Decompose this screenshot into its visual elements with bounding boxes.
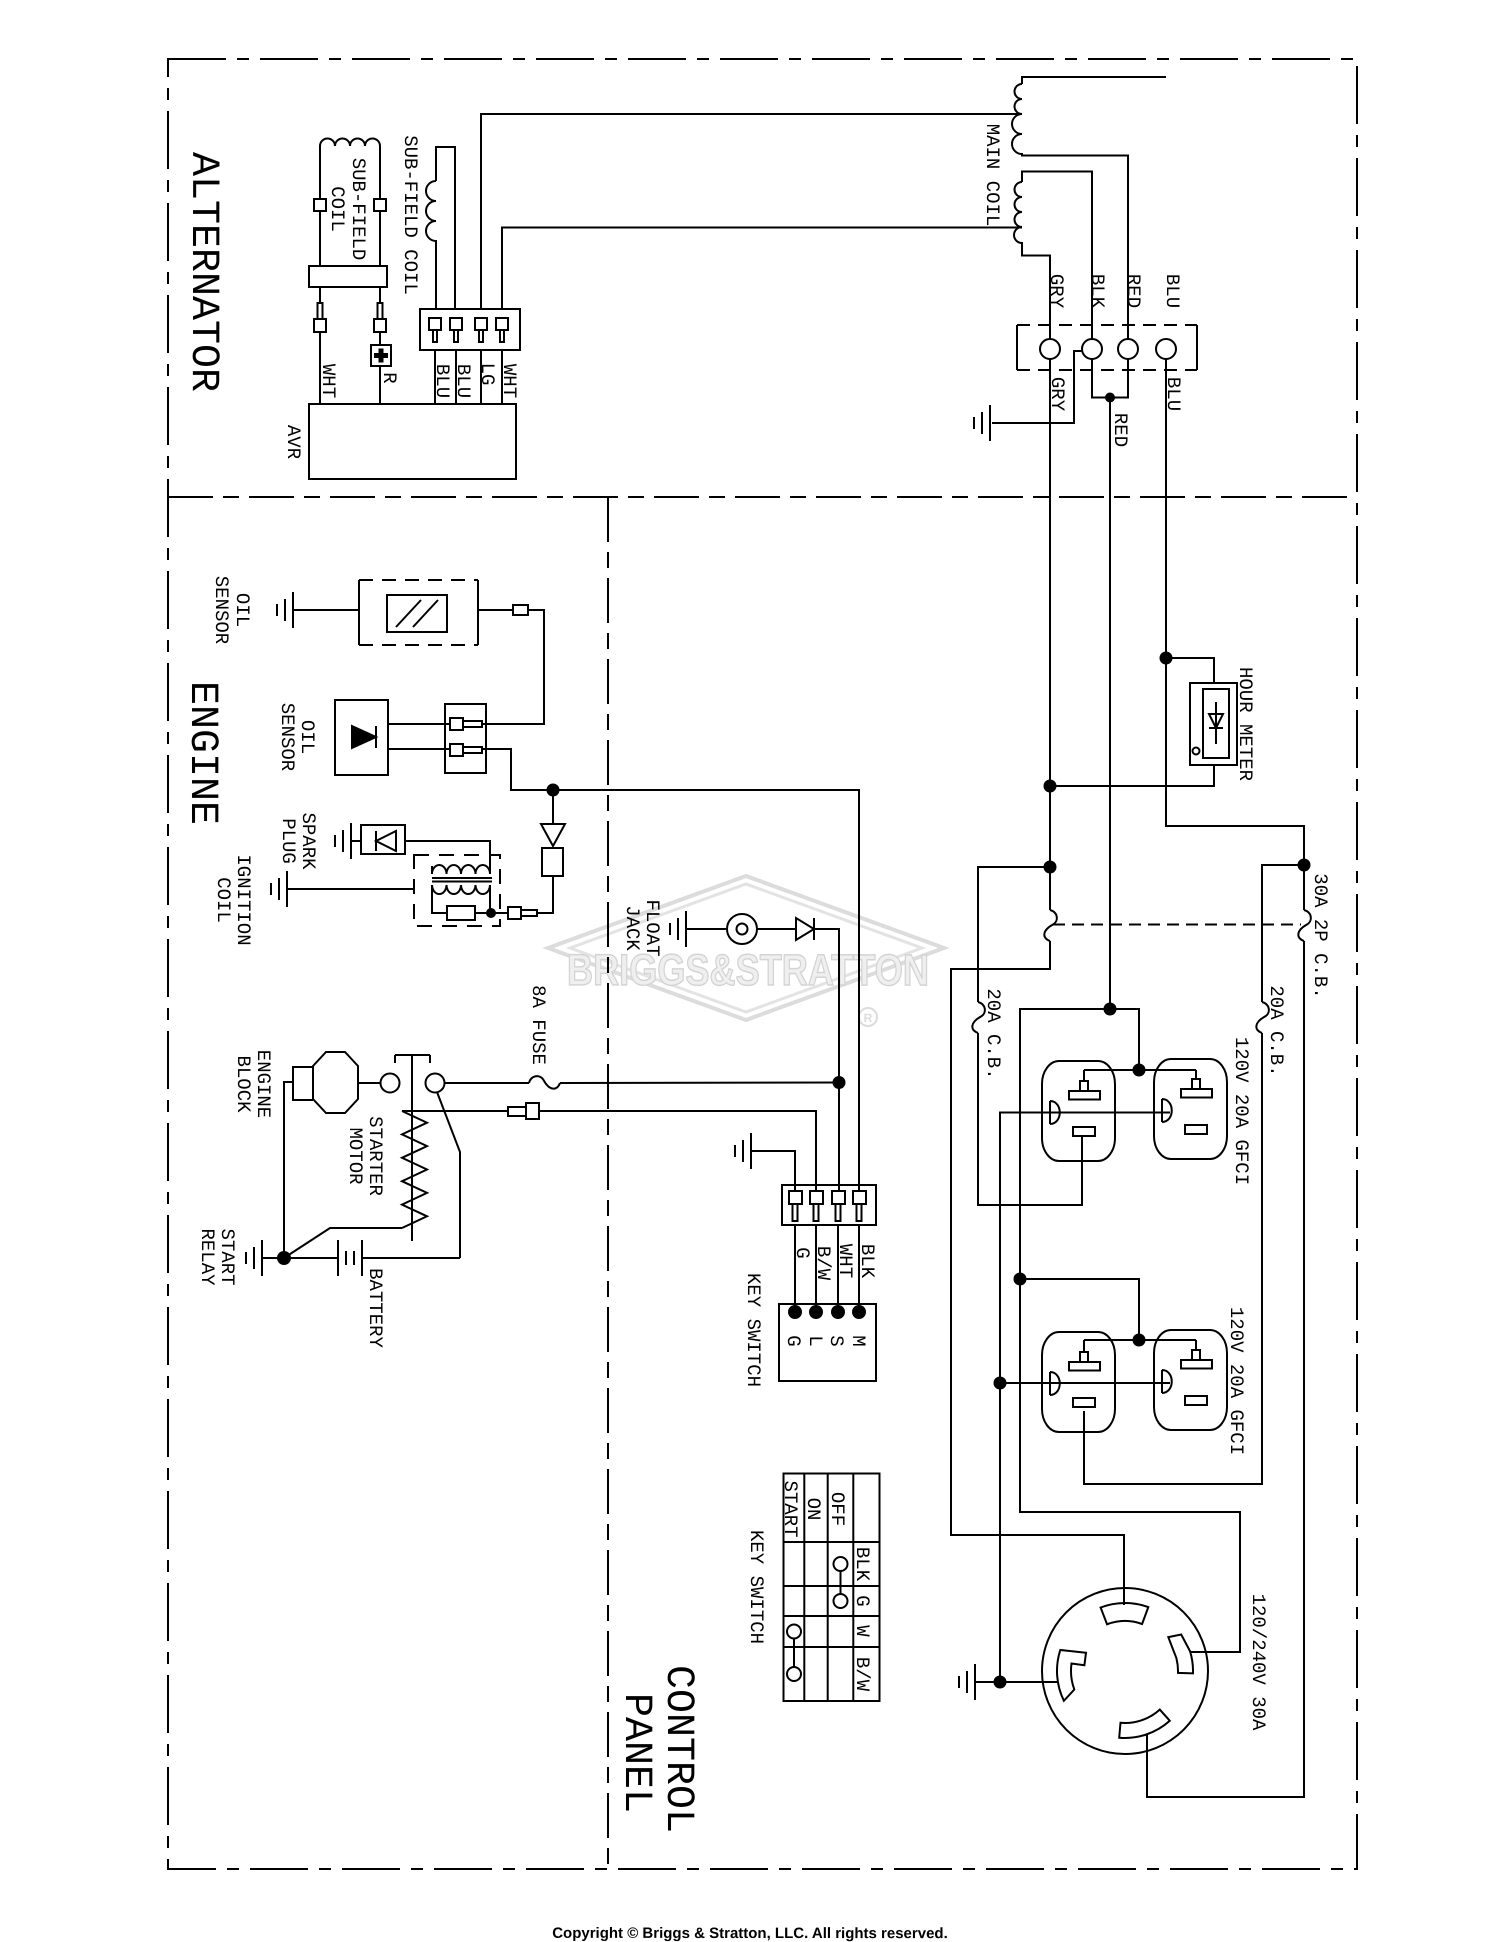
wire start relay ground — [262, 1257, 284, 1259]
wire oil sensor 1 output — [478, 609, 513, 611]
node BLK/RED junction — [1105, 393, 1115, 403]
svg-text:120/240V 30A: 120/240V 30A — [1247, 1594, 1269, 1731]
svg-text:W: W — [851, 1625, 873, 1637]
svg-text:R: R — [378, 372, 400, 383]
wire BLK to chassis ground — [992, 351, 1082, 423]
GFCI receptacle pair2 left — [1042, 1332, 1115, 1432]
starter motor top bar — [395, 1055, 430, 1063]
svg-text:B/W: B/W — [812, 1246, 834, 1281]
hour meter box — [1190, 683, 1237, 765]
oil sensor 2 box — [335, 700, 388, 775]
svg-text:CONTROL: CONTROL — [655, 1665, 700, 1833]
svg-text:8A FUSE: 8A FUSE — [527, 985, 549, 1065]
wire LG pin3 to AVR — [480, 350, 482, 404]
svg-text:BLU: BLU — [1161, 274, 1183, 308]
node GRY hour meter return — [1044, 780, 1057, 793]
wire 30A pole2 to twist-lock bottom slot — [1147, 941, 1304, 1797]
svg-text:BLU: BLU — [1162, 377, 1184, 411]
svg-text:120V 20A GFCI: 120V 20A GFCI — [1225, 1307, 1247, 1455]
svg-text:120V 20A GFCI: 120V 20A GFCI — [1230, 1037, 1252, 1185]
wire hour meter bottom to GRY — [1050, 765, 1214, 786]
svg-text:ENGINEBLOCK: ENGINEBLOCK — [232, 1050, 274, 1118]
node pair2 T feed — [1133, 1334, 1146, 1347]
svg-text:FLOATJACK: FLOATJACK — [621, 899, 663, 956]
svg-text:BATTERY: BATTERY — [364, 1268, 386, 1348]
key table START contacts — [787, 1625, 801, 1639]
pin connector WHT lead — [318, 303, 323, 319]
wire terminal to ignition coil — [491, 912, 508, 914]
wire spark plug box to ignition coil — [405, 841, 490, 874]
terminal on L1 right lead — [374, 199, 386, 211]
battery wire left — [284, 1257, 338, 1259]
oil sensor 2 diode — [352, 726, 376, 748]
key harness connector — [782, 1185, 876, 1225]
svg-text:STARTRELAY: STARTRELAY — [196, 1228, 238, 1286]
twist-lock left slot — [1057, 1650, 1086, 1701]
4-pin connector to AVR — [420, 309, 520, 350]
battery plates — [338, 1240, 362, 1276]
svg-text:ON: ON — [802, 1498, 824, 1521]
float jack wire from ground — [686, 928, 727, 930]
sub-field coil L2 (right) winding — [426, 147, 455, 309]
key switch terminals G L S M — [788, 1305, 802, 1319]
wire ground to oil sensor 1 — [293, 609, 359, 611]
ignition coil core — [432, 878, 492, 882]
main coil winding B — [1014, 172, 1092, 340]
node BLU breaker branch — [1298, 859, 1311, 872]
wire diode to WHT riser — [814, 929, 839, 1083]
sub-field coil L1 (left) winding — [320, 139, 380, 200]
wire junction to BLK key switch — [553, 790, 859, 1191]
watermark Briggs & Stratton logo — [548, 876, 944, 1026]
node ignition coil output — [486, 908, 496, 918]
wire engine block to ground rail — [284, 1082, 293, 1258]
svg-text:G: G — [851, 1595, 873, 1606]
GFCI receptacle pair1 right — [1154, 1059, 1227, 1159]
wire junction down to WHT key pin — [838, 1083, 840, 1192]
bulkhead connector (4 circles) — [1017, 325, 1197, 370]
svg-text:SUB-FIELD COIL: SUB-FIELD COIL — [399, 135, 421, 295]
ignition coil dashed box — [414, 855, 500, 926]
node twist-lock ground — [994, 1676, 1007, 1689]
8A fuse symbol — [529, 1076, 560, 1089]
T-slot stems pair 1 — [1084, 1070, 1196, 1082]
wire WHT riser to main coil tap — [502, 228, 1022, 310]
wire GRY branch to 20A CB 1 — [978, 867, 1050, 1002]
svg-text:MAIN COIL: MAIN COIL — [981, 124, 1003, 227]
node pair1 T feed — [1133, 1064, 1146, 1077]
svg-text:Copyright © Briggs & Stratton,: Copyright © Briggs & Stratton, LLC. All … — [552, 1925, 948, 1942]
inline connector on starter wire — [508, 1107, 526, 1116]
wire engine block to relay contact — [358, 1082, 381, 1084]
svg-text:BLU: BLU — [431, 364, 453, 398]
node BLU hour meter tap — [1160, 652, 1173, 665]
node fuse/float junction — [833, 1076, 846, 1089]
ignition terminal pin — [508, 907, 521, 919]
GFCI receptacle pair2 right — [1154, 1330, 1227, 1430]
120/240V 30A twist-lock receptacle body — [1042, 1588, 1208, 1754]
wire pair-2 feed to T-slots — [1020, 1279, 1139, 1340]
wire WHT pin4 to AVR — [501, 350, 503, 404]
key switch table grid — [784, 1474, 880, 1702]
key switch box — [779, 1304, 876, 1381]
svg-text:WHT: WHT — [317, 364, 339, 398]
wire connector to B/W key pin — [539, 1111, 816, 1191]
wire RED branch to receptacle pair 1 T-slots — [1110, 1009, 1139, 1070]
ground float jack — [670, 911, 686, 947]
svg-text:BRIGGS&STRATTON: BRIGGS&STRATTON — [567, 946, 929, 995]
wire LG riser to main coil tap — [481, 114, 1022, 309]
hour meter diode — [1209, 702, 1223, 744]
wire to oil sensor 2 pin — [482, 610, 544, 724]
wire 30A pole1 to twist-lock top slot — [951, 941, 1124, 1605]
engine block symbol — [313, 1052, 358, 1113]
slip ring box — [309, 266, 387, 287]
wire breaker 2 to receptacle 2 slot stem — [1084, 1033, 1262, 1484]
node GRY breaker branch — [1044, 861, 1057, 874]
svg-text:OFF: OFF — [826, 1492, 848, 1526]
node pair2 neutral — [994, 1377, 1007, 1390]
twist-lock top slot — [1101, 1603, 1149, 1624]
terminal on L1 left lead — [314, 199, 326, 211]
pin connector R lead — [378, 303, 383, 319]
ground key switch G — [735, 1133, 751, 1169]
node oil sensor junction — [547, 784, 560, 797]
svg-text:20A C.B.: 20A C.B. — [1265, 985, 1287, 1076]
svg-text:START: START — [779, 1480, 801, 1537]
neutral wire through pair 1 D-slots — [1000, 1113, 1170, 1683]
wire key G pin to ground — [751, 1151, 795, 1191]
wire below box left — [319, 287, 321, 303]
wire RED down to control panel — [1109, 398, 1111, 1010]
ground spark plug — [335, 823, 351, 859]
svg-text:S: S — [825, 1335, 847, 1346]
ground twist-lock — [959, 1664, 975, 1700]
node pair2 feed — [1014, 1273, 1027, 1286]
wire BLU to hour meter top — [1166, 658, 1214, 683]
section separator alternator/engine — [168, 496, 1357, 498]
svg-text:WHT: WHT — [498, 364, 520, 398]
svg-text:STARTERMOTOR: STARTERMOTOR — [344, 1116, 386, 1196]
section separator engine/control-panel — [607, 497, 609, 1869]
wire starter to inline connector — [402, 1110, 508, 1112]
twist-lock bottom slot — [1119, 1710, 1170, 1738]
30A 2P circuit breaker pole 1 — [1044, 910, 1057, 941]
wire BLU pin2 to AVR — [455, 350, 457, 404]
oil sensor 1 outer box (dashed top/bottom) — [359, 580, 478, 645]
neutral wire through pair 2 D-slots — [1000, 1382, 1170, 1384]
wire RED branch left, down to pair-2 and twist-lock — [1020, 1009, 1240, 1652]
wire BLK circle down to junction — [1092, 359, 1128, 398]
float jack symbol — [727, 914, 757, 944]
svg-text:GRY: GRY — [1046, 377, 1068, 412]
svg-text:B/W: B/W — [851, 1657, 873, 1692]
wire jack to diode — [757, 928, 796, 930]
svg-text:BLK: BLK — [856, 1244, 878, 1279]
float jack diode — [796, 918, 814, 940]
diode symbol — [541, 824, 565, 846]
svg-text:G: G — [791, 1247, 813, 1258]
svg-text:RED: RED — [1109, 413, 1131, 447]
wire sensor2 to connector top — [388, 723, 450, 725]
wire down to ignition terminal — [537, 876, 553, 913]
svg-text:M: M — [847, 1335, 869, 1346]
svg-text:20A C.B.: 20A C.B. — [982, 988, 1004, 1079]
GFCI receptacle pair1 left — [1042, 1061, 1115, 1161]
20A circuit breaker 2 — [1256, 1002, 1269, 1033]
key table OFF contacts — [834, 1557, 848, 1571]
wire ground to twist-lock left slot — [975, 1681, 1058, 1683]
wire L1 right lead to slip-ring box — [379, 211, 381, 266]
node RED split — [1104, 1003, 1117, 1016]
ground start relay — [246, 1240, 262, 1276]
wire connector pin2 to junction — [482, 749, 553, 790]
wire fuse to junction — [560, 1082, 839, 1085]
wire L1 left lead to slip-ring box — [319, 211, 321, 266]
30A 2P circuit breaker pole 2 — [1298, 910, 1311, 941]
svg-text:WHT: WHT — [834, 1244, 856, 1278]
8A fuse wire from relay — [445, 1082, 530, 1084]
resistor R box with cross — [371, 345, 391, 366]
twist-lock right slot — [1168, 1635, 1193, 1674]
svg-text:BLU: BLU — [452, 364, 474, 398]
wire junction down to diode — [552, 790, 554, 824]
svg-text:BLK: BLK — [1086, 274, 1108, 309]
svg-text:G: G — [782, 1335, 804, 1346]
svg-text:30A 2P C.B.: 30A 2P C.B. — [1309, 873, 1331, 998]
svg-text:KEY SWITCH: KEY SWITCH — [742, 1273, 764, 1387]
oil sensor 1 inner element — [387, 595, 447, 632]
svg-text:ALTERNATOR: ALTERNATOR — [180, 152, 225, 392]
wire BLU branch to 20A CB 2 — [1262, 865, 1304, 1002]
pin on oil sensor 1 output — [513, 605, 528, 615]
wire to resistor R — [379, 332, 381, 345]
starter motor armature line — [411, 1055, 413, 1241]
wire WHT to AVR — [319, 332, 321, 404]
svg-text:KEY SWITCH: KEY SWITCH — [745, 1530, 767, 1644]
svg-text:L: L — [804, 1335, 826, 1346]
resistor block — [542, 848, 563, 876]
wire sensor2 to connector bottom — [388, 748, 450, 750]
spark plug arrester box — [361, 825, 405, 854]
svg-text:PANEL: PANEL — [613, 1693, 658, 1813]
T-slot stems pair 2 — [1084, 1340, 1196, 1353]
wire ground to spark plug box — [351, 840, 361, 842]
svg-text:HOUR METER: HOUR METER — [1234, 667, 1256, 781]
oil sensor 2 connector — [445, 704, 486, 773]
ground ignition coil — [271, 871, 287, 907]
wire relay contact to battery riser — [437, 1092, 460, 1258]
ignition coil secondary winding — [432, 885, 490, 894]
breaker tie bar dashed — [1053, 924, 1301, 926]
wire BLU down then over to 30A breaker pole 2 — [1166, 359, 1304, 910]
svg-text:ENGINE: ENGINE — [179, 681, 224, 825]
ignition coil resistor — [432, 885, 447, 913]
wire zigzag bottom to relay coil — [284, 1228, 402, 1258]
wire BLU pin1 to AVR — [434, 350, 436, 404]
svg-text:LG: LG — [476, 363, 498, 386]
T-slot tie wire pair 1 — [1084, 1069, 1196, 1071]
T-slot tie wire pair 2 — [1084, 1339, 1196, 1341]
svg-text:R: R — [864, 1011, 873, 1025]
svg-text:SPARKPLUG: SPARKPLUG — [277, 812, 319, 870]
wire ignition ground to coil case — [287, 888, 414, 890]
wire R to AVR — [379, 366, 381, 404]
svg-text:BLK: BLK — [851, 1547, 873, 1582]
relay contact circles — [381, 1074, 400, 1093]
wires connector to key switch — [795, 1225, 859, 1312]
battery wire right — [362, 1257, 460, 1259]
ground oil sensor 1 — [277, 592, 293, 628]
svg-text:GRY: GRY — [1045, 274, 1067, 309]
starter motor winding zigzag — [402, 1111, 427, 1228]
svg-text:AVR: AVR — [282, 425, 304, 459]
outer dash-dot border frame — [168, 59, 1357, 1869]
20A circuit breaker 1 — [972, 1002, 985, 1033]
ground at main coil connector — [974, 405, 990, 441]
wire below box right — [379, 287, 381, 303]
ignition coil primary winding — [432, 865, 490, 874]
node start relay ground — [277, 1251, 291, 1265]
svg-text:RED: RED — [1122, 274, 1144, 308]
AVR box — [309, 404, 516, 479]
wire breaker 1 to receptacle 1 slot stem — [978, 1033, 1082, 1205]
wire GRY down from connector — [1049, 359, 1051, 910]
main coil winding A — [1012, 77, 1166, 339]
